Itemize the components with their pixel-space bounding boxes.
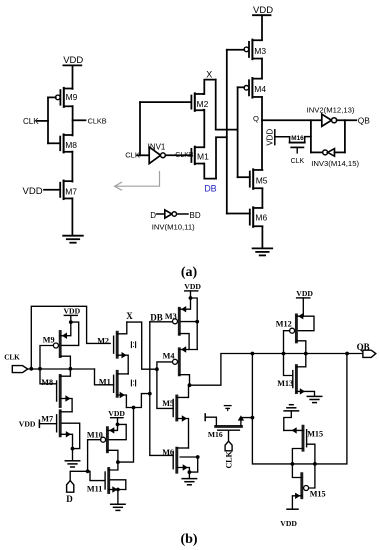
svg-text:M7: M7 [65, 186, 77, 196]
svg-text:VDD: VDD [280, 519, 297, 528]
svg-text:M2: M2 [197, 99, 209, 109]
svg-text:M16: M16 [208, 430, 223, 439]
svg-text:VDD: VDD [184, 282, 201, 291]
transistor M6 (b) NMOS [162, 448, 199, 474]
svg-text:M4: M4 [163, 352, 175, 361]
svg-text:M11: M11 [87, 484, 102, 493]
wire M8 source to M7 drain [71, 152, 73, 182]
ground under M7 (b) [65, 449, 79, 467]
transistor M13 (b) NMOS [277, 354, 314, 396]
wire VDD tick to M7 gate (b) [39, 420, 56, 427]
wire M3 drain to M4 source [261, 59, 263, 79]
wire Q line down to keeper (b) [251, 354, 347, 466]
transistor M4 (PMOS) [244, 78, 266, 98]
wire M5 gate stub [238, 176, 250, 178]
svg-text:M15: M15 [310, 490, 326, 499]
transistor M8 (NMOS) [60, 134, 77, 152]
svg-text:(b): (b) [180, 532, 197, 547]
substrate marks M2 (b) [131, 342, 135, 348]
net VDD label (rotated, M16 source) [266, 129, 275, 146]
wire M6 gate stub [227, 213, 250, 215]
svg-text:M5: M5 [162, 399, 174, 408]
svg-text:CLK: CLK [291, 158, 305, 165]
svg-text:M9: M9 [66, 92, 78, 102]
svg-text:QB: QB [358, 116, 371, 126]
inverter INV1 [148, 142, 166, 163]
svg-text:VDD: VDD [266, 129, 275, 146]
transistor M3 (b) PMOS [165, 298, 191, 350]
node DB label (b) [150, 312, 163, 322]
node X label [206, 69, 212, 79]
wire CLK port to clock buffer node [28, 368, 95, 370]
svg-text:(a): (a) [181, 265, 198, 280]
transistor M15 lower (b) PMOS [292, 464, 325, 509]
transistor M4 (b) PMOS [163, 346, 198, 385]
wire DB vertical to M3/M6 gates (b) [150, 322, 173, 456]
net VDD label (left column) [63, 55, 83, 66]
svg-text:M6: M6 [162, 448, 174, 457]
svg-text:M9: M9 [43, 336, 55, 345]
net VDD label above M10 (b) [108, 409, 125, 426]
bulk rail above M15 (b) [284, 405, 299, 431]
caption (a) [181, 265, 198, 280]
svg-text:VDD: VDD [63, 55, 83, 66]
node QB label [358, 116, 371, 126]
node CLK label (M16 gate) [291, 158, 305, 165]
svg-text:M2: M2 [97, 336, 109, 345]
transistor M3 (PMOS) [244, 40, 266, 60]
wire INV1 output to M1 gate [165, 154, 191, 156]
svg-text:D: D [150, 211, 156, 220]
svg-text:INV3(M14,15): INV3(M14,15) [311, 159, 359, 168]
transistor M2 (b) NMOS [97, 322, 128, 374]
node X label (b) [126, 311, 133, 321]
svg-text:M4: M4 [254, 84, 266, 94]
svg-text:CLK: CLK [225, 450, 234, 468]
svg-text:M1: M1 [197, 151, 209, 161]
wire node X over to M4/M5 gates (b) [127, 322, 173, 408]
wire node X down to M4/M5 gate line [216, 80, 238, 130]
port CLK (b) [4, 353, 28, 372]
svg-text:M3: M3 [254, 46, 266, 56]
wire M9 drain to M8 drain (node CLKB) [73, 106, 86, 135]
net VDD label above M12 (b) [296, 289, 313, 298]
transistor M5 (NMOS) [250, 169, 268, 189]
svg-text:M13: M13 [277, 379, 293, 388]
net VDD label at M7 gate (b) [19, 419, 36, 428]
transistor M9 (b) PMOS [43, 322, 79, 369]
wire feedback right vertical (QB side) [344, 120, 346, 152]
transistor M1 (b) NMOS [95, 369, 129, 408]
junction node Q drains (b) [188, 383, 192, 387]
node CLKB label (INV1 output) [175, 152, 194, 159]
wire VDD to M9 source [72, 65, 74, 89]
wire VDD stub to M3 source (b) [181, 291, 199, 350]
wire DB gate line vertical (M3 gate to M6 gate) [226, 50, 228, 214]
junction M9/M8 drains on clock wire (b) [69, 367, 73, 371]
wire VDD to M3 source [261, 15, 263, 40]
wire INV2 output to QB [337, 119, 357, 121]
wire VDD to M7 gate [44, 189, 60, 191]
net VDD label above M3 (b) [184, 282, 201, 291]
junction M7 source / ground (b) [71, 447, 75, 451]
transistor M10 (b) PMOS [87, 424, 126, 471]
svg-text:DB: DB [150, 312, 163, 322]
transistor M7 (NMOS) [60, 181, 77, 200]
junction Q line taps (b) [251, 352, 350, 356]
wire M9 gate bus with CLK [37, 97, 60, 143]
transistor M5 (b) NMOS [162, 385, 188, 448]
port QB (b) [357, 342, 376, 358]
transistor M9 (PMOS) [56, 88, 78, 107]
port CLK (b keeper gate) [225, 441, 234, 468]
svg-text:M6: M6 [255, 213, 267, 223]
svg-text:VDD: VDD [64, 307, 81, 316]
node DB label (blue) [204, 183, 217, 193]
transistor M16 (b) keeper, horizontal [205, 414, 252, 441]
wire CLK gate bus to M9/M8 gates (b) [40, 346, 56, 384]
svg-text:VDD: VDD [296, 289, 313, 298]
net VDD label (output stack) [253, 5, 273, 16]
wire M2 source to M1 drain [203, 110, 206, 148]
svg-text:CLKB: CLKB [88, 117, 107, 126]
transistor M12 (b) PMOS [276, 298, 314, 367]
wire VDD stub to M9 source (b) [69, 315, 73, 324]
wire BD node up to M1 source wire (b) [118, 408, 134, 463]
svg-text:CLK: CLK [4, 353, 20, 361]
transistor M16 (keeper, horizontal) [275, 135, 311, 153]
wire node Q to QB line (b) [190, 354, 363, 386]
inverter INV3 (M14,15) feedback [311, 149, 360, 168]
ground (output stack) [253, 248, 273, 255]
transistor M11 (b) NMOS [87, 462, 126, 503]
wire M2 drain to node X [204, 80, 216, 94]
svg-text:M8: M8 [41, 378, 53, 387]
wire CLK up and over to M2 gate (b) [31, 306, 110, 369]
substrate marks M16 (b) [224, 406, 231, 411]
svg-text:M15: M15 [307, 429, 323, 438]
net VDD label above M9 (b) [64, 307, 81, 316]
svg-text:DB: DB [204, 183, 217, 193]
node CLKB label (left column) [88, 117, 107, 126]
svg-text:M12: M12 [276, 319, 292, 328]
node Q label [253, 114, 259, 123]
net VDD label at M7 gate [23, 186, 43, 197]
svg-text:M3: M3 [165, 312, 177, 321]
svg-text:M10: M10 [87, 430, 103, 439]
transistor M8 (b) NMOS [41, 369, 72, 412]
wire D port to M11/M10 gates (b) [70, 469, 104, 480]
transistor M1 (NMOS pass) [191, 147, 209, 165]
wire M7 source to ground [71, 198, 73, 234]
junction CLK gate bus [29, 367, 41, 371]
wire M4 gate stub [238, 86, 245, 88]
svg-text:VDD: VDD [23, 186, 43, 197]
annotation arrow (gray) [115, 172, 160, 191]
wire X gate line vertical (M4 gate to M5 gate) [237, 87, 239, 177]
wire M3 gate stub [227, 49, 244, 51]
svg-text:INV(M10,11): INV(M10,11) [152, 222, 195, 231]
wire M4 drain to node Q and down to M5 drain [261, 97, 263, 170]
svg-text:INV1: INV1 [148, 142, 166, 151]
transistor M2 (NMOS pass) [191, 93, 208, 111]
svg-text:VDD: VDD [19, 419, 36, 428]
wire M1 source to node DB [204, 164, 216, 179]
port D (b) [66, 481, 74, 504]
node D label [150, 211, 156, 220]
inverter INV (M10,11) [152, 210, 195, 231]
ground under M6 (b) [182, 472, 196, 485]
node CLK label (left column) [23, 117, 39, 126]
svg-text:X: X [206, 69, 212, 79]
wire M1 source to DB vertical (b) [126, 392, 151, 410]
svg-text:Q: Q [253, 114, 259, 123]
svg-text:M8: M8 [65, 140, 77, 150]
wire M6 source to ground [261, 227, 263, 248]
ground under M11 (b) [111, 504, 125, 510]
svg-text:CLK: CLK [23, 117, 39, 126]
net VDD label below M15 (b) [280, 509, 298, 528]
substrate marks M1 (b) [131, 380, 135, 386]
wire M5 source to M6 drain [261, 189, 263, 208]
inverter INV2 (M12,13) [307, 105, 355, 126]
svg-text:VDD: VDD [108, 409, 125, 418]
svg-text:INV2(M12,13): INV2(M12,13) [307, 105, 355, 114]
wire node Q to INV2 input [262, 119, 322, 121]
ground under M13 (b) [307, 396, 321, 402]
caption (b) [180, 532, 197, 547]
svg-text:M7: M7 [41, 415, 53, 424]
wire feedback left vertical (Q side) [310, 120, 312, 152]
svg-text:M5: M5 [256, 175, 268, 185]
node BD label [190, 211, 201, 220]
transistor M7 (b) NMOS [41, 411, 79, 449]
junction BD node (b) [116, 460, 120, 464]
wire node DB up to M3/M6 gate line [216, 137, 227, 178]
svg-text:D: D [66, 494, 73, 504]
node CLK label (input to INV1) [125, 150, 140, 159]
svg-text:BD: BD [190, 211, 201, 220]
transistor M15 upper (b) NMOS [284, 426, 323, 464]
svg-text:X: X [126, 311, 133, 321]
ground (left column) [63, 236, 83, 243]
transistor M6 (NMOS) [250, 207, 268, 227]
wire CLK into INV1 and up to M2 gate [137, 102, 191, 155]
svg-text:M16: M16 [291, 135, 304, 142]
